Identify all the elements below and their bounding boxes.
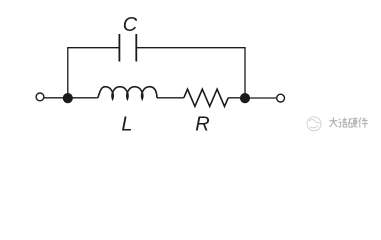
wire: right vertical drop (244, 48, 246, 98)
wire: right junction to right terminal (245, 97, 276, 99)
svg-text:L: L (121, 114, 132, 136)
node: left junction (63, 93, 73, 103)
left terminal (36, 93, 44, 101)
wire: inductor to resistor (157, 97, 184, 99)
watermark text: 硬 (348, 118, 357, 127)
watermark logo circle (307, 117, 321, 131)
wire: resistor to right junction (228, 97, 245, 99)
watermark text: 大 (329, 117, 337, 127)
capacitor C1 plates (118, 34, 120, 62)
watermark text: 件 (359, 118, 368, 128)
node: right junction (240, 93, 250, 103)
resistor R1 (184, 89, 228, 106)
right terminal (277, 94, 285, 102)
watermark group (307, 117, 368, 131)
wire: left vertical riser (67, 48, 69, 98)
wire: top rail left of capacitor (67, 47, 119, 49)
wire: left terminal to left junction (44, 97, 98, 99)
wire: top rail right of capacitor (136, 47, 245, 49)
inductor L1 (98, 87, 157, 99)
svg-text:R: R (195, 114, 209, 136)
svg-text:C: C (123, 14, 138, 36)
watermark text: 话 (339, 118, 348, 128)
